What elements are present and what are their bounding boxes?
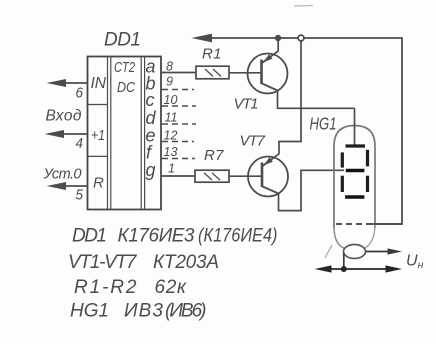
svg-text:9: 9 <box>166 75 173 89</box>
svg-text:12: 12 <box>164 129 178 143</box>
junction dot VT7 <box>298 35 304 41</box>
segment g <box>346 169 365 172</box>
resistor R1 <box>196 66 229 79</box>
pin 12 dashed wire <box>162 141 194 143</box>
svg-text:11: 11 <box>165 111 178 125</box>
segment b <box>366 150 369 167</box>
svg-text:8: 8 <box>166 60 173 74</box>
scan artifact dash <box>294 5 313 8</box>
pin 9 dashed wire <box>162 89 194 91</box>
segment d <box>345 195 364 198</box>
scan artifact stroke near tube base <box>325 245 332 258</box>
IC DD1 body <box>88 57 162 210</box>
pin 8 wire <box>162 72 197 74</box>
svg-text:Uн: Uн <box>406 253 424 272</box>
svg-text:DD1: DD1 <box>104 30 141 51</box>
svg-text:CT2: CT2 <box>114 59 135 76</box>
pin 1 wire <box>162 175 196 177</box>
svg-text:VT7: VT7 <box>240 133 266 150</box>
svg-text:Вход: Вход <box>46 108 82 125</box>
wire VT1 emitter to top rail <box>277 38 279 51</box>
segment a <box>346 144 366 147</box>
svg-text:КТ203А: КТ203А <box>153 252 219 273</box>
svg-text:6: 6 <box>76 85 84 102</box>
transistor VT1 <box>248 51 288 94</box>
pin 10 dashed wire <box>162 105 196 107</box>
Uн arrow <box>388 248 403 254</box>
HG1 anode lead (top, from VT1) <box>354 108 356 145</box>
svg-text:c: c <box>146 90 155 110</box>
svg-text:13: 13 <box>164 145 178 159</box>
svg-text:1: 1 <box>168 162 175 176</box>
pin 6 arrow <box>47 79 67 87</box>
HG1 grid (dashed) <box>336 223 372 225</box>
svg-text:10: 10 <box>164 93 178 107</box>
VT1 emitter arrow <box>263 54 272 62</box>
junction dot filament <box>341 266 347 272</box>
HG1 grid lead to supply <box>372 223 402 225</box>
pin 13 dashed wire <box>162 158 195 160</box>
top supply rail <box>196 38 402 224</box>
svg-text:VT1: VT1 <box>234 96 259 113</box>
svg-text:IN: IN <box>91 75 107 92</box>
junction dot VT1 <box>275 35 281 41</box>
pin 5 arrow <box>47 182 67 190</box>
wire VT7 collector to HG1 segment g <box>279 170 345 210</box>
svg-text:VT1-VT7: VT1-VT7 <box>68 252 138 273</box>
svg-text:(К176ИЕ4): (К176ИЕ4) <box>198 226 278 247</box>
wire VT1 collector down and right to HG1 <box>278 90 355 108</box>
svg-text:К176ИЕ3: К176ИЕ3 <box>118 226 195 247</box>
svg-text:Уст.0: Уст.0 <box>43 167 82 183</box>
filament lead to Uн <box>366 251 393 253</box>
svg-text:HG1: HG1 <box>310 114 337 134</box>
double-headed arrow (heater supply) <box>319 268 398 270</box>
wire R1 to VT1 base <box>229 72 262 74</box>
VT7 emitter arrow <box>264 157 273 165</box>
svg-text:ИВ3: ИВ3 <box>124 301 163 322</box>
transistor VT7 <box>248 154 288 197</box>
svg-text:R7: R7 <box>204 147 224 164</box>
resistor R7 <box>195 170 229 182</box>
pin 5 wire <box>56 185 88 187</box>
indicator HG1 envelope <box>334 126 375 229</box>
svg-text:DC: DC <box>117 79 135 96</box>
wire VT7 emitter up to top rail <box>279 38 301 154</box>
pin 4 wire <box>54 133 88 135</box>
IC DD1 internal field dividers <box>88 57 145 210</box>
top rail arrow <box>192 34 213 43</box>
svg-text:4: 4 <box>76 135 84 152</box>
pin 6 wire <box>56 82 88 84</box>
filament lead down <box>343 253 345 269</box>
svg-text:(ИВ6): (ИВ6) <box>165 301 207 322</box>
pin 4 arrow <box>45 130 65 138</box>
segment e <box>341 176 344 192</box>
svg-text:R1-R2: R1-R2 <box>74 277 137 298</box>
svg-text:62к: 62к <box>155 277 188 298</box>
svg-text:5: 5 <box>76 187 84 204</box>
segment c <box>366 176 369 192</box>
svg-text:g: g <box>146 160 156 180</box>
HG1 envelope bottom curves to base <box>334 228 345 249</box>
svg-text:R1: R1 <box>202 46 222 63</box>
svg-text:R: R <box>93 175 104 192</box>
svg-text:DD1: DD1 <box>72 226 107 247</box>
HG1 base ellipse <box>344 245 366 259</box>
wire R7 to VT7 base <box>229 175 262 177</box>
svg-text:+1: +1 <box>91 127 105 144</box>
pin 11 dashed wire <box>162 123 196 125</box>
svg-text:HG1: HG1 <box>70 301 109 322</box>
segment f <box>341 152 344 167</box>
